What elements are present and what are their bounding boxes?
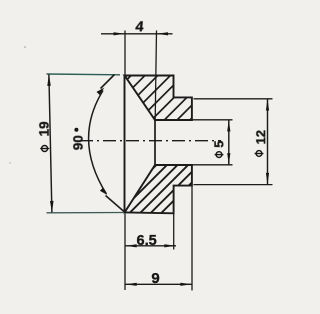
top-half cross-section (hatched)	[72, 60, 250, 135]
dimension phi19 : bottom extension line	[47, 212, 125, 214]
svg-text:90: 90	[71, 135, 86, 150]
dimension phi5 : dimension line with arrows	[227, 120, 230, 165]
angle 90 : dimension arc	[89, 91, 107, 195]
svg-text:12: 12	[253, 130, 268, 144]
dimension phi5 : top extension line	[193, 119, 233, 121]
angle 90 : degree symbol	[74, 128, 78, 132]
dimension phi5 : bottom extension line	[193, 164, 233, 166]
dimension phi12 : dimension line with arrows	[266, 99, 269, 185]
svg-text:9: 9	[151, 270, 159, 287]
dimension 9 : left extension line (below part, shared with 6.5)	[124, 214, 126, 291]
dimension 9 : right extension line (below boss face)	[191, 187, 193, 291]
angle 90 : upper 45-degree reference line	[101, 75, 115, 89]
dimension 6.5 : dimension line with arrows	[125, 244, 176, 247]
svg-text:6.5: 6.5	[137, 233, 157, 249]
dimension 4 : dimension line with outside arrows	[101, 32, 173, 35]
bottom-half cross-section (hatched)	[96, 150, 224, 225]
dimension phi19 : dimension line with arrows	[47, 74, 53, 213]
angle 90 : lower 45-degree reference line	[106, 196, 125, 212]
scan speck top-left	[24, 46, 26, 48]
dimension 4 : extension line right (x=156, passes through part to cone tip)	[155, 31, 156, 120]
scan speck left-bottom	[9, 162, 10, 163]
dimension 4 : extension line left (x=125)	[124, 31, 126, 75]
dimension 9 : dimension line with arrows	[125, 283, 192, 286]
svg-text:5: 5	[211, 140, 226, 147]
centerline (horizontal axis, dash-dot)	[80, 140, 221, 142]
angle 90 : arc arrowheads	[97, 88, 105, 95]
dimension 6.5 : right extension line (below body right edge)	[173, 214, 175, 250]
svg-text:19: 19	[37, 121, 52, 136]
dimension phi12 : top extension line	[194, 98, 273, 100]
dimension phi12 : bottom extension line	[194, 184, 273, 186]
hole left edge (between cone tips)	[154, 120, 156, 166]
left face line of part	[124, 76, 126, 213]
svg-text:4: 4	[135, 19, 145, 35]
dimension phi19 : top extension line	[47, 73, 121, 76]
